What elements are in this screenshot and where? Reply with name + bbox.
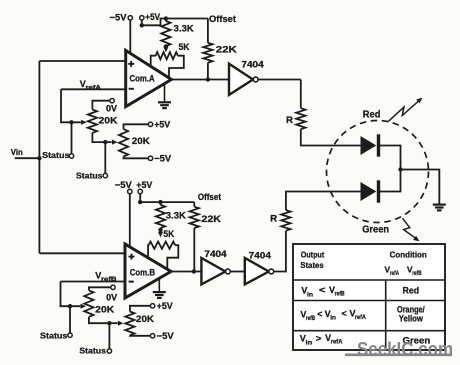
svg-text:R: R [270, 214, 277, 224]
svg-text:>: > [316, 333, 322, 343]
svg-text:−5V: −5V [110, 12, 128, 22]
svg-text:7404: 7404 [249, 250, 272, 260]
svg-text:20K: 20K [99, 115, 118, 125]
svg-text:Green: Green [362, 225, 389, 236]
svg-text:Red: Red [363, 109, 381, 120]
svg-text:20K: 20K [136, 314, 154, 324]
svg-text:<: < [319, 285, 326, 295]
svg-text:3.3K: 3.3K [166, 211, 186, 221]
svg-text:0V: 0V [106, 293, 117, 303]
svg-text:+5V: +5V [145, 12, 161, 22]
svg-text:Status: Status [76, 170, 103, 180]
svg-text:refA: refA [390, 270, 400, 277]
svg-text:in: in [330, 315, 336, 322]
svg-text:R: R [286, 115, 293, 125]
svg-text:in: in [307, 291, 313, 298]
svg-text:refA: refA [331, 339, 343, 346]
svg-text:Yellow: Yellow [399, 314, 423, 324]
svg-text:−5V: −5V [157, 331, 175, 341]
svg-text:0V: 0V [106, 104, 117, 114]
svg-text:refB: refB [335, 291, 345, 298]
svg-text:+5V: +5V [157, 301, 174, 311]
svg-text:22K: 22K [216, 44, 237, 54]
svg-text:20K: 20K [132, 136, 150, 146]
svg-text:+5V: +5V [154, 120, 171, 130]
svg-text:3.3K: 3.3K [174, 24, 194, 34]
svg-text:Output: Output [301, 250, 325, 260]
svg-text:Status: Status [79, 345, 106, 355]
svg-text:+5V: +5V [136, 180, 153, 190]
svg-text:refA: refA [86, 84, 102, 91]
svg-text:Status: Status [42, 150, 70, 160]
svg-text:5K: 5K [163, 229, 174, 239]
svg-text:−5V: −5V [154, 154, 172, 164]
svg-text:refB: refB [101, 276, 117, 283]
svg-text:in: in [306, 339, 313, 346]
svg-text:Vin: Vin [11, 148, 23, 157]
svg-text:Com.A: Com.A [130, 74, 156, 84]
svg-text:Condition: Condition [390, 249, 427, 259]
svg-text:refB: refB [412, 270, 422, 277]
svg-text:refA: refA [355, 314, 366, 321]
svg-text:7404: 7404 [241, 59, 264, 69]
svg-text:Offset: Offset [209, 14, 237, 25]
svg-text:<: < [317, 309, 322, 319]
svg-text:SeekIC.com: SeekIC.com [357, 339, 453, 361]
svg-text:Red: Red [403, 285, 420, 295]
svg-text:Status: Status [40, 331, 68, 341]
svg-text:20K: 20K [95, 305, 114, 315]
svg-text:States: States [300, 260, 323, 270]
svg-text:Com.B: Com.B [130, 267, 156, 277]
svg-text:refB: refB [306, 315, 315, 322]
svg-text:22K: 22K [201, 214, 221, 224]
svg-text:5K: 5K [179, 42, 190, 52]
svg-text:<: < [342, 309, 347, 319]
svg-text:−5V: −5V [115, 180, 133, 190]
svg-text:Offset: Offset [198, 192, 221, 202]
svg-text:7404: 7404 [204, 249, 227, 259]
